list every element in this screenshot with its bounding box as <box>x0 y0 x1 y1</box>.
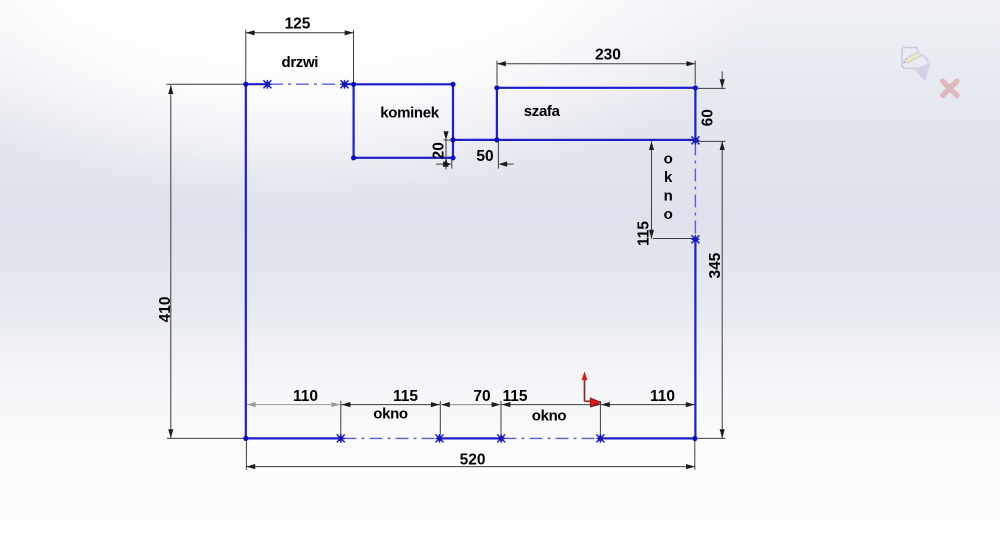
svg-text:345: 345 <box>707 252 724 278</box>
svg-text:520: 520 <box>460 452 486 469</box>
svg-text:110: 110 <box>293 388 318 405</box>
svg-text:k: k <box>664 169 673 186</box>
svg-text:drzwi: drzwi <box>282 54 319 71</box>
svg-text:230: 230 <box>595 46 621 63</box>
svg-text:125: 125 <box>285 15 311 32</box>
svg-text:410: 410 <box>157 296 174 322</box>
svg-text:szafa: szafa <box>524 103 561 120</box>
svg-text:n: n <box>664 188 673 205</box>
svg-text:115: 115 <box>502 388 527 405</box>
svg-text:115: 115 <box>393 388 418 405</box>
svg-text:o: o <box>664 206 673 223</box>
svg-text:20: 20 <box>430 142 447 159</box>
svg-text:70: 70 <box>473 388 490 405</box>
svg-text:50: 50 <box>476 148 493 165</box>
svg-text:okno: okno <box>373 405 408 422</box>
svg-text:okno: okno <box>532 407 567 424</box>
svg-text:kominek: kominek <box>380 104 439 121</box>
svg-text:o: o <box>664 151 673 168</box>
svg-text:110: 110 <box>650 388 675 405</box>
svg-text:115: 115 <box>636 221 653 246</box>
svg-text:60: 60 <box>699 109 716 126</box>
